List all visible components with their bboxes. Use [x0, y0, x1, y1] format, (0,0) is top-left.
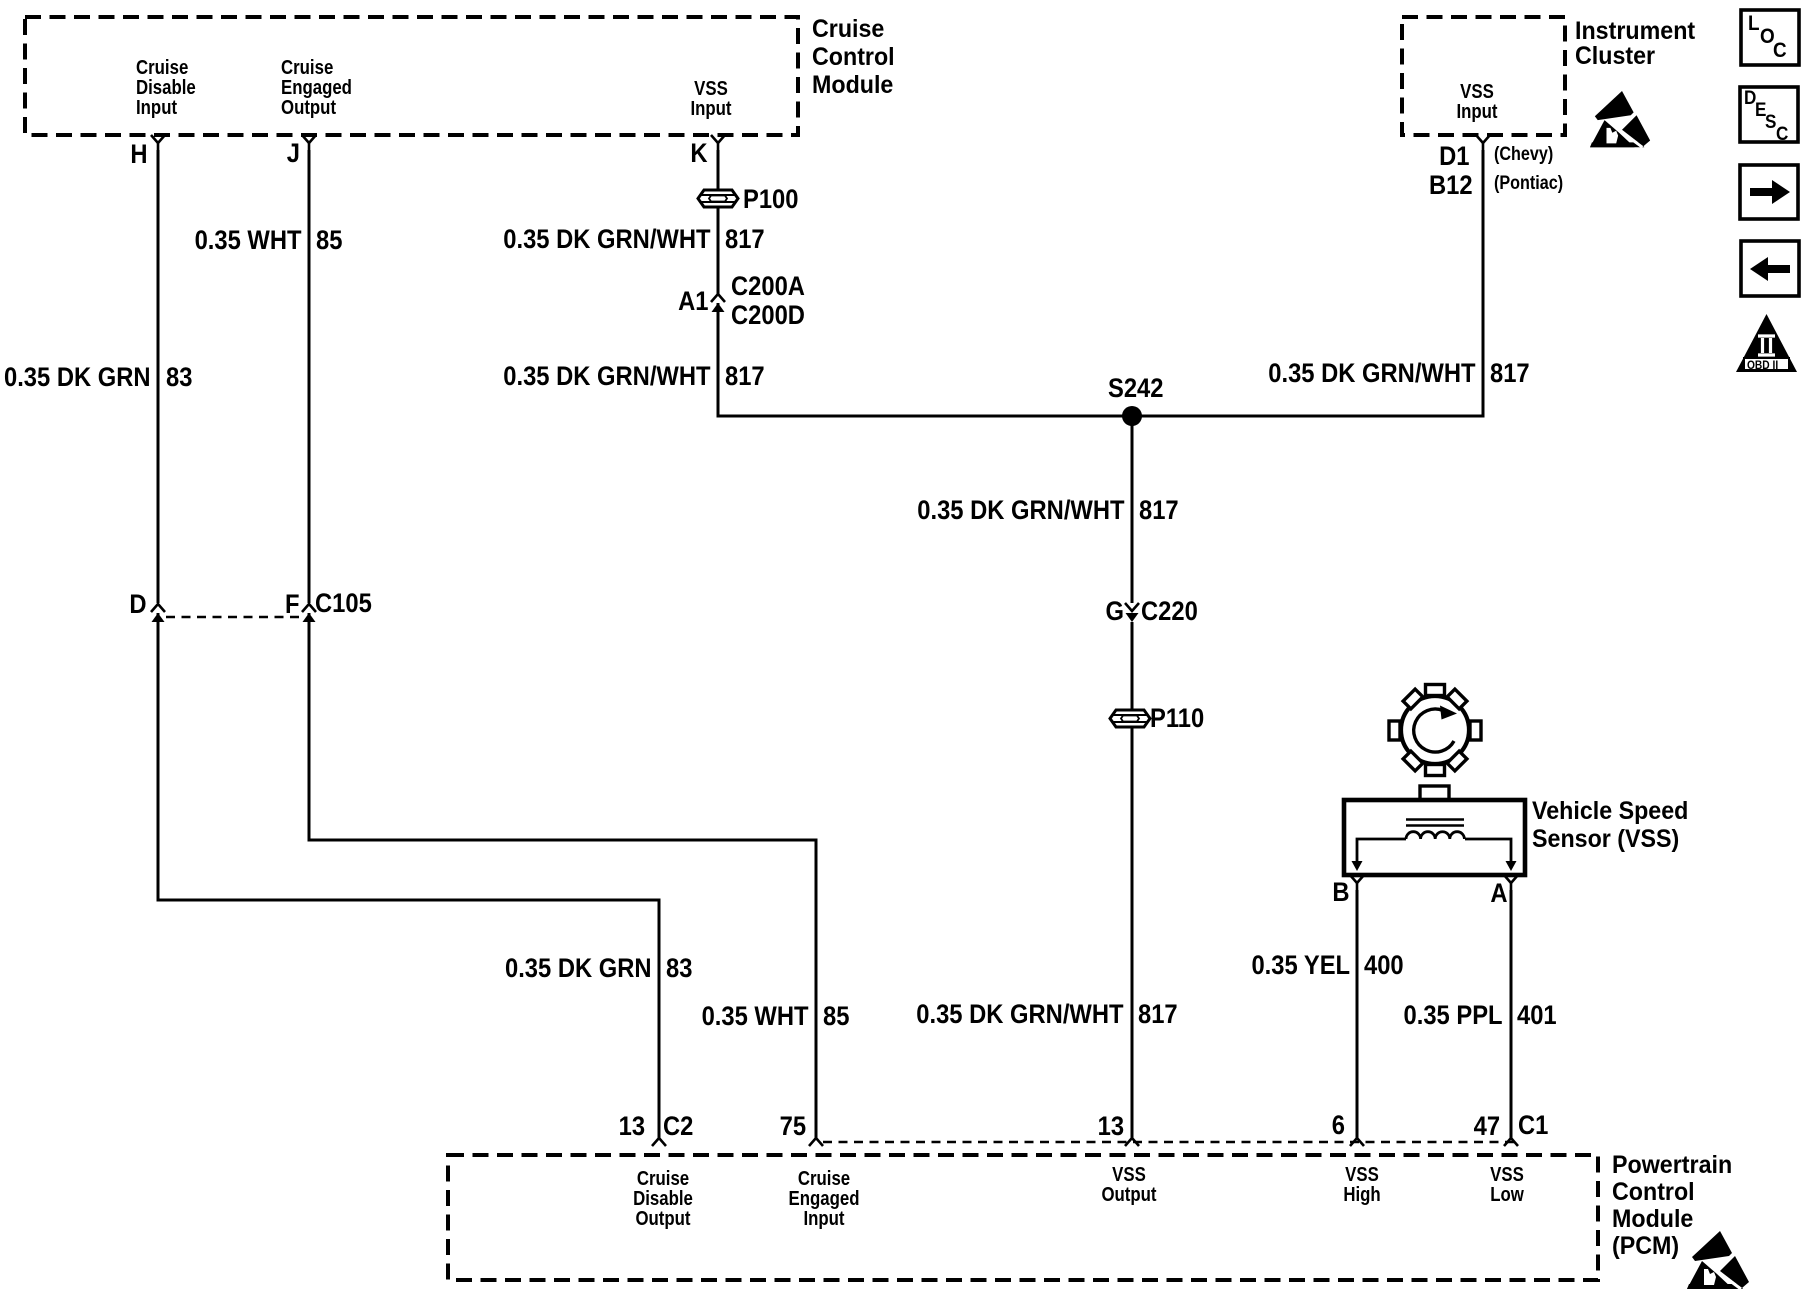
- wire label 85: [316, 227, 342, 254]
- VSS pin B: [1350, 875, 1364, 890]
- wire 817 up to instrument cluster: [1482, 150, 1485, 416]
- wire 817 down to PCM pin 13: [1131, 727, 1134, 1138]
- connector C105 pin F: [302, 604, 316, 622]
- DESC icon letters D: [1744, 89, 1756, 108]
- pin label A: [1490, 880, 1507, 907]
- pin D1/B12 (Instrument Cluster VSS Input): [1476, 135, 1490, 150]
- wire 817 from S242 down to C220: [1131, 416, 1134, 603]
- LOC icon letters C: [1773, 40, 1787, 61]
- wire 0.35 WHT 85 from pin J down to C105 pin F: [308, 150, 311, 603]
- label Cruise Disable Input: [136, 58, 196, 118]
- LOC icon box: [1741, 10, 1799, 65]
- ESD sensitivity symbol (Instrument Cluster): [1590, 91, 1650, 147]
- wire 817 from P100 to C200: [717, 207, 720, 294]
- Powertrain Control Module box: [448, 1155, 1598, 1280]
- pin label G: [1106, 598, 1124, 625]
- DESC icon letters S: [1765, 113, 1776, 132]
- wire label 83 (bottom): [666, 955, 692, 982]
- PCM pin 75 fork: [809, 1138, 823, 1146]
- Cruise Control Module box: [25, 17, 798, 135]
- connector C105 pin D: [151, 604, 165, 622]
- label VSS Input (CCM): [690, 79, 731, 119]
- wire 0.35 DK GRN 83 from pin H down to C105 pin D: [157, 150, 160, 603]
- wire label 0.35 DK GRN/WHT (mid): [504, 363, 711, 390]
- grommet P110: [1110, 710, 1150, 727]
- pin H (CCM Cruise Disable Input): [151, 135, 165, 150]
- wire label 0.35 DK GRN (bottom): [505, 955, 652, 982]
- wire 85 horizontal jog: [308, 839, 818, 842]
- connector C200A / C200D pin A1: [711, 294, 725, 312]
- pin label D: [129, 591, 146, 618]
- dashed connector face line across PCM pins: [823, 1141, 1517, 1143]
- wire 83 down to PCM pin 13 C2: [658, 900, 661, 1138]
- PCM pin 13 C2 fork: [652, 1138, 666, 1146]
- DESC icon box: [1740, 87, 1798, 142]
- pin label J: [287, 140, 300, 167]
- PCM pin label 6: [1332, 1112, 1345, 1139]
- wire label 0.35 PPL: [1404, 1002, 1503, 1029]
- wire label 83: [166, 364, 192, 391]
- wire 817 from pin K to P100: [717, 150, 720, 190]
- label P110: [1150, 705, 1204, 732]
- VSS internal lead to pin B: [1357, 839, 1406, 864]
- pin label A1: [679, 288, 709, 315]
- pin K (CCM VSS Input): [711, 135, 725, 150]
- label Cruise Disable Output: [633, 1169, 693, 1229]
- wire 83 horizontal jog: [157, 899, 661, 902]
- label Cruise Engaged Input: [789, 1169, 860, 1229]
- wire label 0.35 DK GRN/WHT (bottom): [917, 1001, 1124, 1028]
- wire label 817 (top): [725, 226, 765, 253]
- wire 817 from C200 down to junction: [717, 303, 720, 418]
- PCM pin label 13 (VSS Output): [1098, 1113, 1124, 1140]
- wire label 85 (bottom): [823, 1003, 849, 1030]
- OBD II banner text: [1747, 359, 1778, 371]
- label VSS High: [1343, 1165, 1380, 1205]
- PCM pin 13 fork: [1125, 1138, 1139, 1146]
- wire 817 from C220 to P110: [1131, 622, 1134, 710]
- PCM pin 6 fork: [1350, 1138, 1364, 1146]
- LOC icon letters O: [1760, 26, 1775, 47]
- wire 0.35 WHT 85 below C105 pin F: [308, 613, 311, 840]
- pin label B12: [1429, 172, 1473, 199]
- PCM pin label C2: [663, 1113, 693, 1140]
- wire label 0.35 DK GRN/WHT (right): [1269, 360, 1476, 387]
- PCM pin label 47: [1474, 1113, 1500, 1140]
- wire label 0.35 WHT: [195, 227, 302, 254]
- DESC icon letters E: [1755, 101, 1766, 120]
- label VSS Output: [1101, 1165, 1156, 1205]
- label (Pontiac): [1494, 174, 1563, 193]
- PCM pin label 75: [780, 1113, 806, 1140]
- label S242: [1108, 375, 1163, 402]
- wire 0.35 DK GRN 83 below C105 pin D: [157, 613, 160, 900]
- VSS internal lead to pin A: [1465, 839, 1511, 864]
- label VSS Input (IC): [1456, 82, 1497, 122]
- label Powertrain Control Module (PCM): [1612, 1152, 1732, 1260]
- ESD sensitivity symbol (PCM): [1687, 1231, 1749, 1289]
- pin label B: [1332, 879, 1349, 906]
- PCM pin label 13 (C2): [619, 1113, 645, 1140]
- wire label 400: [1364, 952, 1404, 979]
- wire label 0.35 YEL: [1251, 952, 1350, 979]
- Vehicle Speed Sensor (VSS) box: [1344, 786, 1525, 875]
- LOC icon letters L: [1748, 13, 1760, 34]
- pin label F: [284, 591, 299, 618]
- pin label K: [690, 140, 707, 167]
- pin J (CCM Cruise Engaged Output): [302, 135, 316, 150]
- label Vehicle Speed Sensor (VSS): [1532, 797, 1688, 853]
- wire label 817 (S242): [1139, 497, 1179, 524]
- PCM pin label C1: [1518, 1112, 1548, 1139]
- label C200A: [731, 273, 805, 300]
- wire label 401: [1517, 1002, 1557, 1029]
- connector C220 pin G: [1125, 603, 1139, 622]
- wire label 817 (mid): [725, 363, 765, 390]
- VSS pin A: [1504, 875, 1518, 890]
- label C105: [315, 590, 372, 617]
- pin label H: [130, 141, 147, 168]
- label VSS Low: [1490, 1165, 1524, 1205]
- wire 817 horizontal through splice S242: [717, 415, 1485, 418]
- wire label 0.35 DK GRN/WHT (top): [504, 226, 711, 253]
- PCM pin 47 C1 fork: [1504, 1138, 1518, 1146]
- label Instrument Cluster: [1575, 19, 1695, 69]
- Instrument Cluster box: [1402, 17, 1565, 135]
- pin label D1: [1440, 143, 1470, 170]
- VSS reluctor gear icon: [1389, 685, 1481, 776]
- OBD II triangle icon: [1736, 314, 1797, 372]
- grommet P100: [698, 190, 738, 207]
- label Cruise Control Module: [812, 15, 895, 99]
- VSS pickup core lines: [1406, 820, 1464, 826]
- label C220: [1141, 598, 1198, 625]
- wire label 0.35 DK GRN: [4, 364, 151, 391]
- wire label 817 (right): [1490, 360, 1530, 387]
- VSS pickup coil L1: [1406, 832, 1464, 839]
- DESC icon letters C: [1776, 125, 1788, 144]
- label Cruise Engaged Output: [281, 58, 352, 118]
- wire 85 down to PCM pin 75: [815, 840, 818, 1138]
- wire label 0.35 WHT (bottom): [702, 1003, 809, 1030]
- label P100: [743, 186, 798, 213]
- wire 0.35 PPL 401 from VSS A to PCM pin 47 C1: [1510, 890, 1513, 1138]
- back arrow icon: [1741, 241, 1799, 296]
- label C200D: [731, 302, 805, 329]
- wire label 817 (bottom): [1138, 1001, 1178, 1028]
- wire label 0.35 DK GRN/WHT (S242): [918, 497, 1125, 524]
- forward arrow icon: [1740, 165, 1798, 219]
- dashed connector line C105 between D and F: [166, 616, 301, 618]
- splice S242: [1122, 406, 1142, 426]
- label (Chevy): [1494, 145, 1553, 164]
- wire 0.35 YEL 400 from VSS B to PCM pin 6: [1356, 890, 1359, 1138]
